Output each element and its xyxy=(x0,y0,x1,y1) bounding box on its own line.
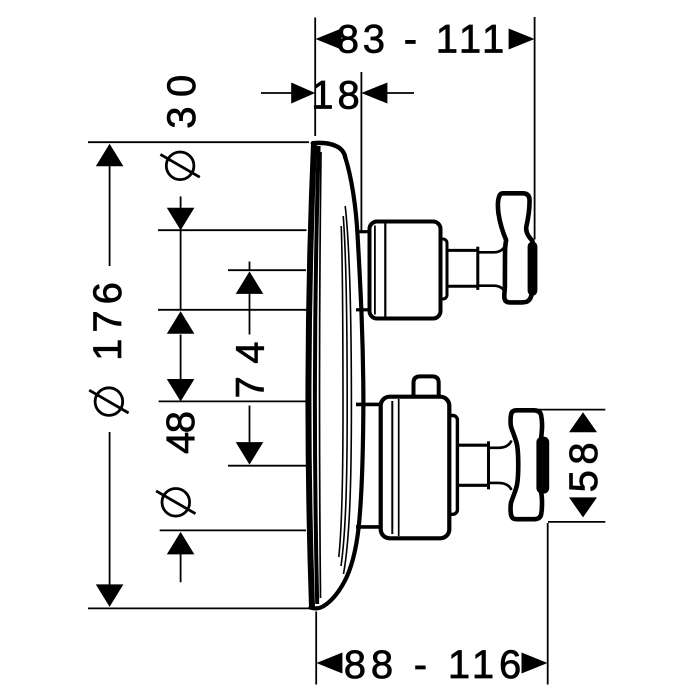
upper hub xyxy=(479,245,506,293)
upper handle cap xyxy=(528,242,538,296)
lower cap ring xyxy=(446,416,457,515)
svg-text:88 - 116: 88 - 116 xyxy=(344,643,526,687)
svg-text:18: 18 xyxy=(311,74,364,118)
dimension D48 xyxy=(156,335,306,583)
svg-text:48: 48 xyxy=(159,412,203,454)
upper valve neck xyxy=(356,232,369,310)
dimension D176 xyxy=(86,142,312,608)
upper stem xyxy=(449,247,478,290)
svg-text:58: 58 xyxy=(562,437,606,493)
svg-text:74: 74 xyxy=(228,329,272,399)
svg-text:176: 176 xyxy=(86,276,130,361)
lower valve neck xyxy=(356,404,380,527)
dimension 18 xyxy=(261,72,414,232)
lower handle cap xyxy=(536,437,549,494)
lower hub xyxy=(489,441,512,491)
dimension 58 xyxy=(537,410,606,522)
lower stem xyxy=(459,441,489,489)
lower tab xyxy=(414,376,439,400)
upper sleeve xyxy=(370,222,441,319)
dimension 83-111 top xyxy=(315,17,534,240)
upper cap ring xyxy=(437,239,447,299)
escutcheon plate xyxy=(308,143,363,608)
dimension 74 xyxy=(228,262,306,466)
svg-text:83 - 111: 83 - 111 xyxy=(337,18,508,62)
dimension 88-116 bottom xyxy=(316,523,548,687)
upper handle xyxy=(498,193,533,302)
svg-text:30: 30 xyxy=(160,65,204,129)
lower sleeve xyxy=(381,397,450,539)
dimension D30 xyxy=(158,65,310,334)
lower handle xyxy=(511,410,544,519)
